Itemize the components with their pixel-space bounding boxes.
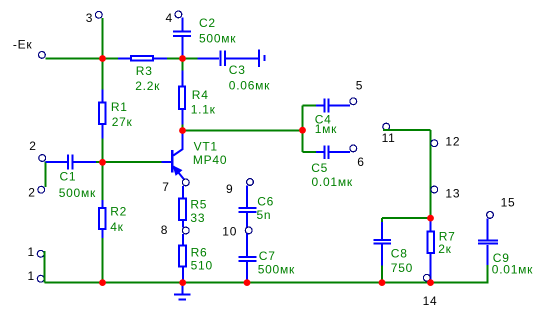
- resistor R4: [179, 87, 185, 109]
- svg-text:5: 5: [356, 78, 363, 92]
- pin 10 circle: [245, 227, 252, 234]
- junction node K: [427, 215, 434, 222]
- svg-text:C3: C3: [229, 63, 246, 77]
- wire terminal 15 to C9: [487, 218, 489, 239]
- junction rail at ground: [179, 279, 186, 286]
- svg-text:500мк: 500мк: [258, 263, 295, 277]
- capacitor C7: [239, 257, 257, 261]
- wire collector node I to node J: [183, 130, 303, 132]
- wire C3 left lead: [198, 58, 220, 60]
- terminal 3 circle: [95, 11, 102, 18]
- svg-text:MP40: MP40: [193, 153, 227, 167]
- junction node J: [299, 127, 306, 134]
- svg-text:1: 1: [28, 269, 35, 283]
- svg-text:0.01мк: 0.01мк: [312, 175, 353, 189]
- resistor R6: [179, 245, 186, 266]
- wire C5 right lead: [330, 151, 351, 153]
- svg-text:2к: 2к: [438, 242, 451, 256]
- wire R2 top lead: [102, 200, 104, 208]
- wire R3 right lead: [153, 58, 167, 60]
- svg-text:C2: C2: [199, 16, 216, 30]
- svg-text:C7: C7: [259, 249, 276, 263]
- svg-text:-Ек: -Ек: [13, 38, 33, 52]
- wire top rail from -Ek terminal to R3: [46, 58, 119, 60]
- capacitor C5: [324, 145, 328, 159]
- wire C3 to open plate terminal: [226, 58, 258, 60]
- junction rail at C8: [379, 279, 386, 286]
- terminal 2 upper circle: [39, 155, 46, 162]
- wire node J to C4 branch: [303, 104, 317, 106]
- wire C8 to bottom rail: [381, 266, 383, 283]
- terminal 15 circle: [487, 212, 494, 219]
- terminal 1 upper circle: [37, 250, 44, 257]
- svg-text:C6: C6: [257, 195, 274, 209]
- wire C2 to node B: [182, 37, 184, 59]
- wire R3 left lead: [118, 58, 131, 60]
- junction node C: [99, 159, 106, 166]
- wire R4 to collector node I: [182, 125, 184, 131]
- transistor VT1 emitter arrow: [173, 166, 181, 175]
- svg-text:C1: C1: [60, 170, 77, 184]
- wire pin 9 to C6: [246, 185, 248, 207]
- capacitor C1: [68, 154, 73, 169]
- junction rail at R2: [99, 279, 106, 286]
- wire terminal 11 to vertical bus: [383, 129, 431, 131]
- wire R7 top lead: [430, 218, 432, 231]
- wire C4 right lead: [330, 104, 351, 106]
- svg-text:R3: R3: [136, 64, 153, 78]
- svg-text:13: 13: [445, 186, 460, 200]
- svg-text:C8: C8: [391, 246, 408, 260]
- svg-text:1.1к: 1.1к: [191, 103, 216, 117]
- svg-text:5n: 5n: [257, 208, 272, 222]
- svg-text:6: 6: [357, 155, 364, 169]
- wire C1 right lead: [74, 161, 97, 163]
- wire C5 left lead: [316, 151, 324, 153]
- svg-text:R2: R2: [110, 205, 127, 219]
- svg-text:C5: C5: [311, 161, 328, 175]
- transistor VT1 emitter lead: [173, 166, 184, 179]
- wire C5 branch: [303, 151, 317, 153]
- wire pin 10 to C7: [246, 234, 248, 256]
- capacitor C2: [173, 31, 191, 36]
- wire base of VT1: [103, 161, 162, 163]
- pin 8 circle: [182, 227, 189, 234]
- svg-text:12: 12: [445, 134, 460, 148]
- wire R1 top lead: [102, 90, 104, 103]
- wire joining terminals 2: [45, 162, 47, 188]
- capacitor C3: [221, 50, 225, 66]
- junction rail at R7: [427, 279, 434, 286]
- ground bar 1: [174, 294, 191, 296]
- svg-text:27к: 27к: [112, 115, 133, 129]
- svg-text:1мк: 1мк: [315, 122, 337, 136]
- resistor R7: [427, 231, 434, 253]
- svg-text:2: 2: [29, 139, 36, 153]
- wire node C down to R2: [102, 163, 104, 201]
- svg-text:8: 8: [161, 223, 168, 237]
- wire bottom rail: [45, 265, 488, 283]
- wire terminal 3 drop: [102, 18, 104, 59]
- svg-text:4: 4: [166, 11, 173, 25]
- svg-text:15: 15: [501, 195, 516, 209]
- junction rail at C7: [244, 279, 251, 286]
- wire R1 bottom lead: [102, 125, 104, 138]
- svg-text:2.2к: 2.2к: [135, 79, 160, 93]
- capacitor C9: [478, 240, 498, 243]
- terminal -Ek circle: [39, 52, 46, 59]
- wire node K to C8 branch: [382, 217, 431, 219]
- svg-text:9: 9: [226, 182, 233, 196]
- resistor R5: [179, 199, 186, 220]
- ground bar 2: [179, 299, 186, 301]
- wire R5 to pin 8: [182, 220, 184, 228]
- svg-text:VT1: VT1: [194, 140, 218, 154]
- wire R7 bottom lead: [430, 253, 432, 283]
- svg-text:11: 11: [382, 131, 396, 145]
- wire node A down to R1: [102, 59, 104, 90]
- pin 13 circle: [431, 186, 438, 193]
- wire pin 7 to R5: [182, 186, 184, 199]
- svg-text:R4: R4: [192, 88, 209, 102]
- pin 7 circle: [182, 179, 189, 186]
- transistor VT1 collector lead: [173, 131, 182, 156]
- wire C8 top lead: [381, 222, 383, 239]
- svg-text:3: 3: [86, 11, 93, 25]
- pin 14 circle: [423, 274, 430, 281]
- wire C1 to node C: [96, 161, 103, 163]
- terminal 6 circle: [350, 145, 357, 152]
- wire C9 bottom lead: [487, 245, 489, 265]
- svg-text:0.01мк: 0.01мк: [492, 263, 533, 277]
- wire base lead blue: [162, 161, 172, 163]
- capacitor C4: [324, 99, 328, 113]
- wire C4 C5 left vertical: [302, 105, 304, 152]
- svg-text:2: 2: [28, 185, 35, 199]
- pin 12 circle: [431, 140, 438, 147]
- svg-text:4к: 4к: [110, 220, 123, 234]
- wire C8 branch top: [381, 218, 383, 222]
- wire R1 to node C: [102, 139, 104, 163]
- svg-text:500мк: 500мк: [199, 31, 236, 45]
- wire terminal 4 to C2: [182, 18, 184, 31]
- svg-text:1: 1: [28, 245, 35, 259]
- wire node B down to R4: [182, 59, 184, 71]
- wire top rail from R3 to C3: [167, 58, 198, 60]
- terminal 5 circle: [350, 98, 357, 105]
- svg-text:7: 7: [162, 180, 169, 194]
- capacitor C8: [374, 240, 391, 243]
- resistor R2: [99, 208, 105, 229]
- svg-text:10: 10: [222, 225, 237, 239]
- junction node I collector: [179, 127, 186, 134]
- terminal 11 circle: [383, 123, 390, 130]
- wire R2 to bottom rail: [102, 238, 104, 283]
- svg-text:R5: R5: [190, 198, 207, 212]
- svg-text:510: 510: [191, 259, 213, 273]
- wire vertical bus 11-14: [430, 130, 432, 218]
- svg-text:750: 750: [391, 261, 413, 275]
- svg-text:0.06мк: 0.06мк: [229, 79, 270, 93]
- wire C6 to pin 10: [246, 213, 248, 227]
- svg-text:33: 33: [190, 211, 205, 225]
- resistor R3: [131, 56, 153, 61]
- transistor VT1 base bar: [171, 150, 174, 173]
- wire C8 bottom lead: [381, 244, 383, 265]
- open plate terminal after C3: [259, 50, 265, 67]
- wire C7 to bottom rail: [246, 262, 248, 283]
- terminal 4 circle: [175, 11, 182, 18]
- svg-text:14: 14: [423, 294, 438, 308]
- wire R2 bottom lead: [102, 229, 104, 238]
- ground stem: [182, 283, 184, 295]
- wire pin 8 to R6: [182, 234, 184, 246]
- svg-text:500мк: 500мк: [59, 186, 96, 200]
- terminal 2 lower circle: [38, 186, 45, 193]
- junction node B: [179, 55, 186, 62]
- wire R4 top lead: [182, 71, 184, 87]
- wire C4 left lead: [316, 104, 324, 106]
- junction node A: [99, 55, 106, 62]
- svg-text:R1: R1: [111, 100, 128, 114]
- wire terminal 2 to C1: [46, 161, 68, 163]
- resistor R1: [99, 102, 105, 124]
- svg-text:R6: R6: [191, 245, 208, 259]
- wire terminal 1 drop: [44, 251, 46, 283]
- pin 9 circle: [247, 179, 254, 186]
- capacitor C6: [239, 208, 257, 212]
- wire R4 bottom lead: [182, 110, 184, 125]
- wire R6 to bottom rail: [182, 266, 184, 282]
- terminal 1 lower circle: [37, 275, 44, 282]
